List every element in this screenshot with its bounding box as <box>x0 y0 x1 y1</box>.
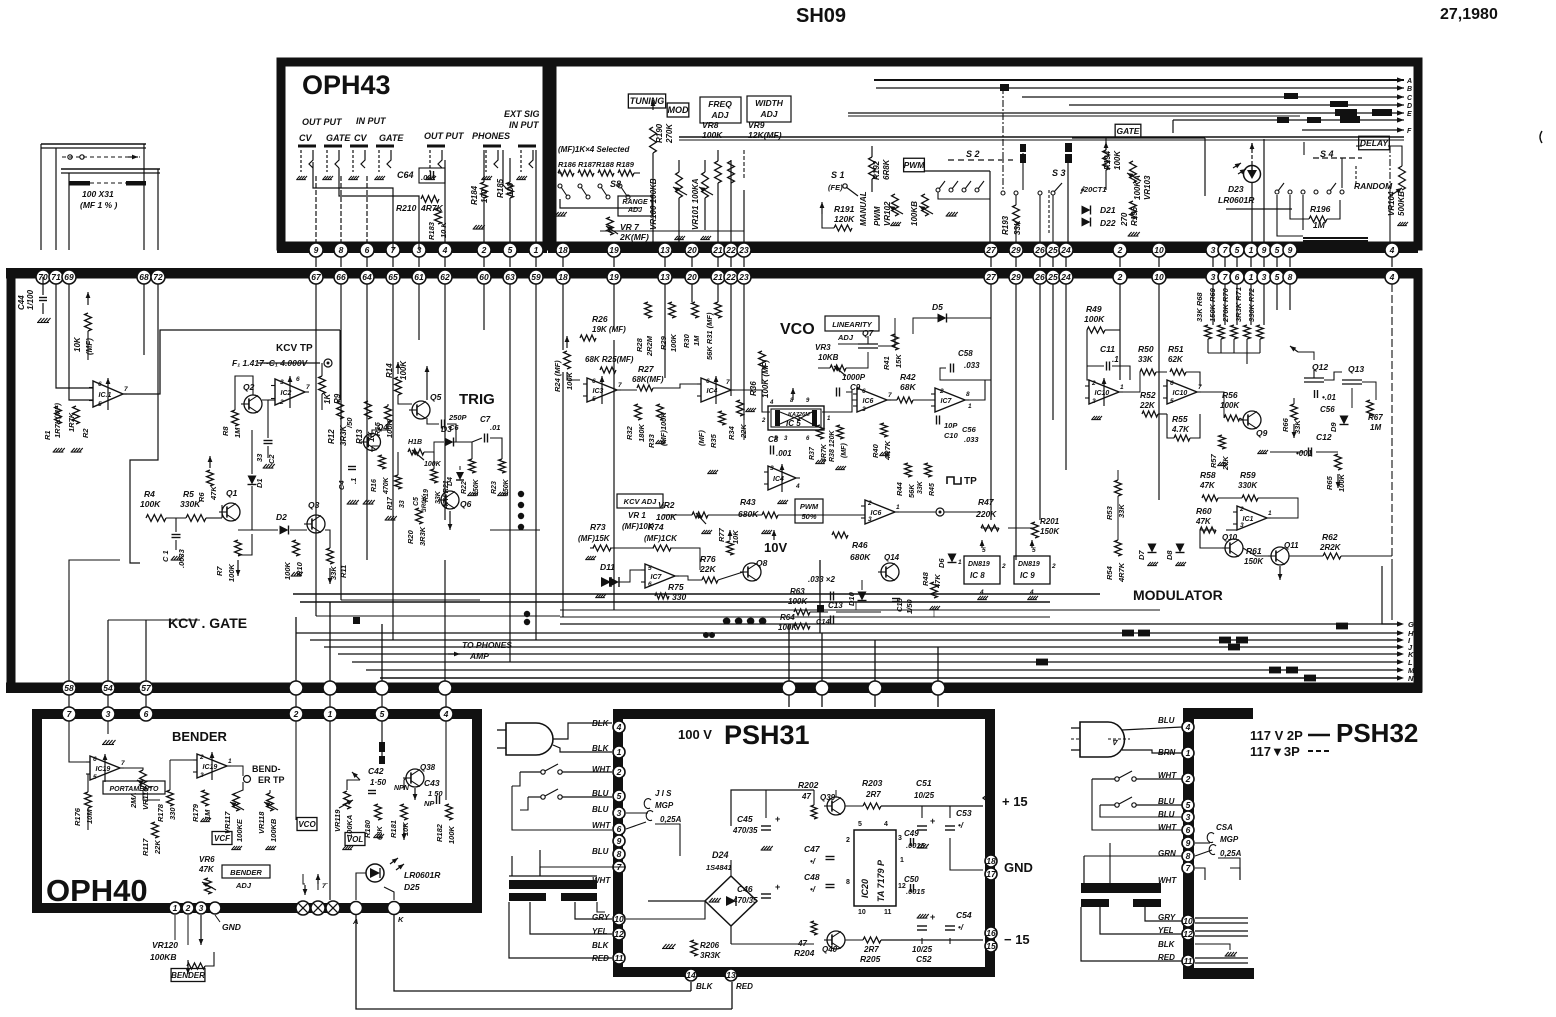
svg-text:1: 1 <box>896 504 900 511</box>
svg-text:4R7K: 4R7K <box>1117 562 1126 583</box>
double bar under S4 <box>1303 237 1368 239</box>
svg-text:33: 33 <box>399 500 406 508</box>
svg-text:R43: R43 <box>740 497 756 507</box>
svg-text:3: 3 <box>898 835 902 842</box>
transistor Q40 <box>827 931 845 949</box>
svg-text:D: D <box>1407 103 1412 110</box>
svg-text:VR117: VR117 <box>223 811 232 834</box>
bus bar main box top <box>6 268 1422 279</box>
op-amp IC4 <box>701 378 731 402</box>
svg-text:R26: R26 <box>592 314 608 324</box>
wires IC19b <box>170 759 197 761</box>
svg-text:.1: .1 <box>1112 355 1119 364</box>
svg-text:ADJ: ADJ <box>235 881 252 890</box>
svg-text:R45: R45 <box>929 483 936 496</box>
wire OPH43 cv out <box>313 162 393 250</box>
svg-text:D24: D24 <box>712 850 729 860</box>
svg-text:1: 1 <box>968 403 972 410</box>
diodes D21 D22 <box>1082 206 1091 215</box>
svg-text:BLU: BLU <box>1158 716 1175 725</box>
svg-text:R27: R27 <box>638 364 655 374</box>
svg-text:GRY: GRY <box>592 913 610 922</box>
diode D8 <box>1176 544 1185 553</box>
svg-text:R76: R76 <box>700 554 716 564</box>
trimmer VR120 <box>187 963 205 969</box>
svg-text:2: 2 <box>293 709 299 719</box>
resistor column 3R3K R71 <box>1244 325 1251 339</box>
wire pwm chain <box>663 514 692 516</box>
svg-text:100K: 100K <box>424 461 442 468</box>
svg-text:19K (MF): 19K (MF) <box>592 325 626 334</box>
svg-text:R60: R60 <box>1196 506 1212 516</box>
svg-text:C11: C11 <box>1100 344 1115 354</box>
svg-text:GRN: GRN <box>1158 849 1176 858</box>
svg-text:ADJ: ADJ <box>627 207 643 214</box>
trimmer VR100 100KB <box>676 172 683 198</box>
svg-text:S 1: S 1 <box>831 170 845 180</box>
transistor Q10 <box>1225 539 1243 557</box>
svg-text:R62: R62 <box>1322 532 1338 542</box>
bus line I <box>310 639 1398 641</box>
svg-text:F: F <box>1407 128 1412 135</box>
resistor column 330K R72 <box>1257 325 1264 339</box>
resistor R183 10K vertical <box>435 208 442 224</box>
svg-text:Q13: Q13 <box>1348 364 1364 374</box>
svg-text:2: 2 <box>279 399 284 406</box>
op-amp IC3 <box>587 378 617 402</box>
svg-text:65: 65 <box>388 272 398 282</box>
wires S4 region <box>1277 195 1303 236</box>
transistor Q9 <box>1243 411 1261 429</box>
svg-text:R57: R57 <box>1209 453 1218 468</box>
svg-text:1: 1 <box>1249 245 1254 255</box>
left lower wires <box>69 560 120 600</box>
svg-text:C56: C56 <box>962 425 977 434</box>
wires below OPH40 <box>174 915 176 940</box>
svg-text:D7: D7 <box>1137 550 1146 560</box>
op-amp IC19b <box>197 754 227 778</box>
svg-text:R203: R203 <box>862 778 883 788</box>
diode D2 <box>280 526 289 535</box>
svg-text:R65: R65 <box>1325 475 1334 490</box>
svg-text:11: 11 <box>1184 956 1193 966</box>
connector circles OPH40 bottom <box>169 902 181 914</box>
svg-text:2MΛ: 2MΛ <box>129 793 138 809</box>
resistor R10 100K <box>293 540 300 556</box>
svg-text:54: 54 <box>103 683 113 693</box>
resistor R12 3R3K <box>337 401 344 419</box>
svg-text:5: 5 <box>1275 245 1280 255</box>
svg-text:FREQ: FREQ <box>708 99 732 109</box>
svg-text:ADJ: ADJ <box>710 110 728 120</box>
ground pin3 <box>107 721 109 734</box>
svg-text:3: 3 <box>868 516 872 523</box>
mid horizontal wires <box>339 330 341 400</box>
svg-text:8: 8 <box>966 391 970 398</box>
svg-text:5: 5 <box>380 709 385 719</box>
resistor R206 3R3K <box>691 940 698 956</box>
svg-text:•/: •/ <box>958 923 964 932</box>
svg-text:R190: R190 <box>655 123 664 143</box>
svg-text:R67: R67 <box>1368 413 1383 422</box>
svg-text:MGP: MGP <box>655 801 674 810</box>
svg-text:R186 R187R188 R189: R186 R187R188 R189 <box>558 160 635 169</box>
svg-text:∲20CT1: ∲20CT1 <box>1080 185 1106 194</box>
trimmer VR104 500KB <box>1389 146 1391 196</box>
svg-text:68K R25(MF): 68K R25(MF) <box>585 355 634 364</box>
svg-text:7: 7 <box>888 392 892 399</box>
svg-text:D21: D21 <box>1100 205 1116 215</box>
transformer core lines <box>509 875 597 877</box>
svg-text:2: 2 <box>1091 380 1096 387</box>
svg-text:63: 63 <box>505 272 515 282</box>
trimmer VR117 100KB <box>233 793 240 811</box>
svg-text:•/: •/ <box>958 821 964 830</box>
svg-text:120K: 120K <box>834 214 855 224</box>
svg-text:C49: C49 <box>904 829 919 838</box>
wire down from gate rail <box>1172 120 1174 133</box>
svg-text:− 15: − 15 <box>1004 932 1030 947</box>
svg-text:R49: R49 <box>1086 304 1102 314</box>
connector circles row lower (main box top) <box>309 270 323 284</box>
svg-text:R37: R37 <box>809 446 816 460</box>
svg-text:10: 10 <box>1183 916 1193 926</box>
resistor R210 4R7K <box>421 196 439 203</box>
wire pin7 loop <box>1195 868 1205 880</box>
svg-text:13: 13 <box>660 272 670 282</box>
transistor Q3 <box>307 515 325 533</box>
svg-text:5: 5 <box>1275 272 1280 282</box>
svg-text:R32: R32 <box>625 425 634 440</box>
svg-text:R28: R28 <box>635 337 644 352</box>
svg-text:117▼3P: 117▼3P <box>1250 744 1300 759</box>
svg-text:OPH43: OPH43 <box>302 70 391 100</box>
wires right of TRIG going right <box>490 529 540 531</box>
switch SW1 PSH32 <box>1115 777 1119 781</box>
connector circles far left (68-72) <box>36 270 50 284</box>
svg-text:5: 5 <box>982 547 986 554</box>
svg-text:3: 3 <box>1211 245 1216 255</box>
svg-text:1: 1 <box>1186 748 1191 758</box>
boxed label VCF <box>212 832 232 845</box>
capacitor C53 .1 <box>945 825 955 827</box>
svg-text:(MF)1K×4 Selected: (MF)1K×4 Selected <box>558 145 630 154</box>
svg-text:VR120: VR120 <box>152 940 178 950</box>
terminal +15 <box>983 792 991 804</box>
svg-text:C42: C42 <box>368 766 384 776</box>
svg-text:.033: .033 <box>964 361 980 370</box>
svg-text:100KE: 100KE <box>235 818 244 842</box>
svg-text:BLK: BLK <box>696 982 714 991</box>
resistor R195 270 <box>1130 201 1137 219</box>
svg-text:8: 8 <box>339 245 344 255</box>
svg-text:10P: 10P <box>944 421 958 430</box>
boxed label GATE <box>1115 124 1141 138</box>
transistor Q14 <box>881 563 899 581</box>
svg-text:R4: R4 <box>144 489 155 499</box>
svg-text:9: 9 <box>617 836 622 846</box>
svg-text:5: 5 <box>1235 245 1240 255</box>
svg-text:33K: 33K <box>1138 355 1154 364</box>
trimmer H1B 100K <box>408 449 424 455</box>
transistor Q5 <box>412 401 430 419</box>
svg-text:33K: 33K <box>917 480 924 494</box>
wire trig lower <box>590 547 594 549</box>
svg-text:19: 19 <box>609 245 619 255</box>
svg-text:R184: R184 <box>470 185 479 205</box>
resistor R33 100K(MF) <box>657 404 664 420</box>
wires A K down <box>356 915 732 1009</box>
svg-text:SH09: SH09 <box>796 5 846 27</box>
resistor R17 33 <box>395 475 402 489</box>
svg-text:4: 4 <box>616 722 622 732</box>
transistor Q11 <box>1271 547 1289 565</box>
svg-text:EXT SIG: EXT SIG <box>504 109 540 119</box>
S4 frame wires <box>1303 142 1305 155</box>
svg-text:D2: D2 <box>276 512 287 522</box>
svg-text:C64: C64 <box>397 170 414 180</box>
vertical dashed TRIG KWN <box>1048 190 1050 233</box>
wire to PSH31 pin14 13 <box>690 982 692 991</box>
svg-text:330K: 330K <box>1238 481 1258 490</box>
svg-text:60: 60 <box>479 272 489 282</box>
svg-text:R30: R30 <box>682 333 691 348</box>
svg-text:GATE: GATE <box>379 133 404 143</box>
svg-text:R38 120K: R38 120K <box>829 430 836 462</box>
svg-text:GATE: GATE <box>326 133 351 143</box>
svg-text:1M: 1M <box>1370 423 1381 432</box>
svg-text:1K: 1K <box>323 393 332 404</box>
svg-text:C43: C43 <box>424 778 440 788</box>
svg-text:9: 9 <box>1288 245 1293 255</box>
svg-text:470K: 470K <box>383 476 390 495</box>
svg-text:27: 27 <box>985 245 997 255</box>
svg-text:16: 16 <box>986 928 996 938</box>
svg-text:62K: 62K <box>1168 355 1184 364</box>
svg-text:2: 2 <box>481 245 487 255</box>
trimmer VR119 100KA <box>344 791 351 809</box>
svg-text:IC.1: IC.1 <box>99 392 112 399</box>
svg-text:Q38: Q38 <box>420 763 436 772</box>
svg-text:19: 19 <box>609 272 619 282</box>
svg-text:10/25: 10/25 <box>912 945 933 954</box>
svg-text:3R3K: 3R3K <box>700 951 722 960</box>
svg-text:22K: 22K <box>1139 401 1156 410</box>
svg-text:6: 6 <box>706 378 710 385</box>
svg-text:22: 22 <box>725 245 736 255</box>
short lines bottom mid <box>560 609 1160 611</box>
resistor R34 22K <box>737 400 744 416</box>
op-amp IC7a <box>935 388 965 412</box>
svg-text:26: 26 <box>1034 272 1045 282</box>
svg-text:56K: 56K <box>907 484 916 498</box>
switch feeds PSH32 <box>1092 779 1182 830</box>
svg-text:6R8K: 6R8K <box>882 158 891 180</box>
resistor R7 100K <box>235 540 242 556</box>
svg-text:3: 3 <box>1262 272 1267 282</box>
boxed label RANGE ADJ <box>618 196 652 216</box>
transistor Q2 <box>244 395 262 413</box>
svg-text:150K: 150K <box>1040 527 1060 536</box>
resistor R117 22K <box>152 822 159 838</box>
svg-text:VOL: VOL <box>347 835 364 844</box>
svg-text:WIDTH: WIDTH <box>755 98 784 108</box>
svg-text:2R2M: 2R2M <box>645 335 654 357</box>
wires fuse <box>626 812 648 814</box>
S4 contacts <box>1275 190 1279 194</box>
junction dots mid <box>353 617 360 624</box>
svg-text:VR8: VR8 <box>702 120 719 130</box>
svg-text:4: 4 <box>1029 589 1034 596</box>
wires plug PSH32 to pins <box>1122 727 1182 730</box>
svg-text:4: 4 <box>795 483 800 490</box>
bus line L <box>352 661 1398 663</box>
svg-text:4: 4 <box>769 400 774 406</box>
svg-text:24: 24 <box>1060 245 1071 255</box>
svg-text:R73: R73 <box>590 522 606 532</box>
svg-text:R33: R33 <box>647 433 656 448</box>
wire gate rail <box>1105 138 1107 150</box>
svg-text:R77: R77 <box>717 527 726 542</box>
trimmer VR118 100KB <box>267 793 274 811</box>
svg-text:.033: .033 <box>964 435 979 444</box>
svg-text:71: 71 <box>51 272 61 282</box>
svg-text:4: 4 <box>1185 722 1191 732</box>
svg-text:R53: R53 <box>1105 505 1114 520</box>
long vertical dash right <box>1391 284 1393 560</box>
svg-text:NPN: NPN <box>394 785 410 792</box>
svg-text:100K: 100K <box>227 563 236 582</box>
wires IC1 <box>56 284 93 388</box>
svg-text:1/100: 1/100 <box>26 289 35 310</box>
jack PHONES second contact <box>503 150 508 190</box>
resistor R65 100K <box>1335 454 1342 470</box>
svg-text:R54: R54 <box>1105 565 1114 580</box>
svg-text:J I S: J I S <box>655 789 672 798</box>
svg-text:+: + <box>775 814 780 824</box>
resistor R32 180K <box>635 404 642 420</box>
wire IC6 to IC7 <box>887 399 897 401</box>
svg-text:VCO: VCO <box>298 820 316 829</box>
svg-text:68: 68 <box>139 272 149 282</box>
phones pair lines <box>293 593 540 595</box>
svg-text:1: 1 <box>228 758 232 765</box>
IC8 box DN819 <box>964 556 1000 584</box>
svg-text:IC6: IC6 <box>871 510 882 517</box>
wire 72 down to R4 <box>130 284 158 563</box>
vco long verticals lower <box>990 284 992 520</box>
svg-text:4: 4 <box>884 821 888 828</box>
svg-text:TA 7179 P: TA 7179 P <box>876 859 886 902</box>
module box OPH40 <box>37 714 477 908</box>
svg-text:27,1980: 27,1980 <box>1440 6 1498 23</box>
trimmer VR101 100KA <box>702 172 709 198</box>
svg-text:R75: R75 <box>668 582 684 592</box>
svg-text:5: 5 <box>858 821 862 828</box>
svg-text:33K: 33K <box>1013 219 1022 235</box>
keyboard contact dashed line <box>62 156 140 158</box>
svg-text:C51: C51 <box>916 778 932 788</box>
svg-text:7‾: 7‾ <box>322 882 329 890</box>
svg-text:(MF): (MF) <box>841 443 848 458</box>
junction dots row VCO <box>723 618 729 624</box>
svg-text:2R2K: 2R2K <box>1319 543 1342 552</box>
grounds VCO mid <box>746 408 749 411</box>
svg-text:CV: CV <box>354 133 367 143</box>
svg-text:B: B <box>1407 86 1412 93</box>
svg-text:TUNING: TUNING <box>630 96 665 106</box>
resistor R176 10M <box>85 792 92 808</box>
connector circles main box bottom <box>62 681 76 695</box>
svg-text:D22: D22 <box>1100 218 1116 228</box>
svg-text:•001: •001 <box>1296 449 1313 458</box>
svg-text:IC7: IC7 <box>651 574 663 581</box>
ground S2 <box>947 212 950 216</box>
svg-text:29: 29 <box>1010 272 1021 282</box>
svg-text:4: 4 <box>979 589 984 596</box>
resistor R44 56K <box>905 463 912 477</box>
svg-text:R6: R6 <box>197 492 206 502</box>
svg-text:R46: R46 <box>852 540 868 550</box>
svg-text:+: + <box>930 912 935 922</box>
svg-text:RED: RED <box>736 982 753 991</box>
svg-text:R20: R20 <box>406 529 415 544</box>
svg-text:1: 1 <box>1268 510 1272 517</box>
svg-text:R117: R117 <box>141 838 150 856</box>
bus bar top box bottom <box>548 243 1418 253</box>
svg-text:IC20: IC20 <box>860 879 870 898</box>
svg-text:C46: C46 <box>737 884 753 894</box>
svg-text:72: 72 <box>153 272 163 282</box>
svg-text:OPH40: OPH40 <box>46 873 148 908</box>
boxed label PWM 50% <box>795 499 823 523</box>
capacitor C2 33 <box>264 440 273 442</box>
svg-text:57: 57 <box>141 683 152 693</box>
circles A K <box>350 902 363 915</box>
transistor Q38 <box>406 769 424 787</box>
svg-text:MANUAL: MANUAL <box>859 191 868 226</box>
switch SW2 PSH32 <box>1115 803 1119 807</box>
svg-text:R206: R206 <box>700 941 720 950</box>
ground R206 <box>663 944 667 948</box>
svg-text:VR 1: VR 1 <box>628 511 646 520</box>
svg-text:R74: R74 <box>648 522 664 532</box>
svg-text:(FE): (FE) <box>828 183 843 192</box>
svg-text:•/: •/ <box>810 885 816 894</box>
svg-text:CSA: CSA <box>1216 823 1233 832</box>
svg-text:2: 2 <box>1001 563 1006 570</box>
svg-text:MOD: MOD <box>668 105 689 115</box>
wire 58 54 57 up <box>68 600 70 681</box>
transformer PSH31 secondary bars <box>509 893 546 901</box>
modulator verticals <box>1119 284 1121 380</box>
svg-text:(MF)1CK: (MF)1CK <box>644 534 678 543</box>
svg-text:1 50: 1 50 <box>428 789 443 798</box>
transistor Q4 <box>364 434 381 451</box>
gate line with blobs <box>1173 119 1404 121</box>
svg-text:3: 3 <box>862 406 866 413</box>
svg-text:Q3: Q3 <box>308 500 320 510</box>
svg-text:18: 18 <box>558 272 568 282</box>
svg-text:62: 62 <box>440 272 450 282</box>
svg-text:R1: R1 <box>43 430 52 440</box>
svg-text:25: 25 <box>1047 272 1058 282</box>
IC20 box <box>854 830 896 906</box>
svg-text:(MF 1 % ): (MF 1 % ) <box>80 200 117 210</box>
svg-text:22K: 22K <box>153 840 162 855</box>
svg-text:BLK: BLK <box>592 941 610 950</box>
wires bridge <box>626 901 705 919</box>
